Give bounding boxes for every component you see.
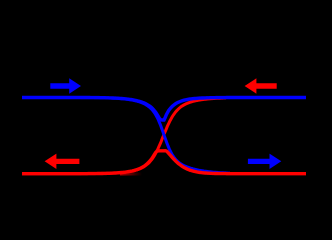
blue dip along top line [22,98,306,121]
blue arrow top-left pointing right [50,78,81,93]
blue kink: right-moving switching front (top-left to bottom-right) [22,98,230,174]
faded remnant of bottom line left of centre [120,172,142,175]
red bump along bottom line [22,151,306,174]
red kink: left-moving switching front (bottom-left to top-right) [22,98,226,174]
blue arrow bottom-right pointing right [248,154,281,169]
red arrow top-right pointing left [245,78,277,93]
red arrow bottom-left pointing left [45,154,80,169]
